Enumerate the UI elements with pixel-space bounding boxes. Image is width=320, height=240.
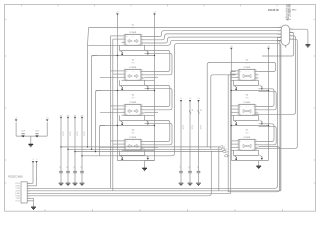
ground below bulk caps — [28, 144, 33, 146]
long verticals from U1 inputs to bottom buses — [111, 36, 122, 191]
decoupling capacitor C8 — [188, 98, 193, 186]
horizontal power distribution buses — [61, 147, 223, 152]
capacitor C2 — [35, 131, 39, 138]
svg-text:+5V: +5V — [74, 115, 77, 117]
svg-text:7:RTS: 7:RTS — [16, 198, 20, 200]
left staircase bus of middle column — [88, 45, 122, 156]
svg-text:/Y7/: /Y7/ — [131, 62, 135, 64]
svg-text:Vc2: Vc2 — [138, 70, 140, 72]
svg-text:Vc2: Vc2 — [138, 140, 140, 142]
pull-up network below U5 — [231, 80, 268, 90]
svg-text:GND: GND — [252, 114, 255, 116]
svg-text:Vc2: Vc2 — [252, 140, 254, 142]
left connector pig-tails — [27, 163, 36, 207]
svg-text:+5V: +5V — [230, 46, 233, 48]
power net flags at bus ends — [220, 146, 231, 158]
svg-text:/Y7/: /Y7/ — [245, 97, 249, 99]
transceiver U6 — [236, 95, 259, 117]
svg-text:LTV8441: LTV8441 — [244, 102, 251, 104]
svg-text:RS232C-9(M): RS232C-9(M) — [8, 176, 22, 178]
decoupling capacitor C4 — [66, 115, 71, 186]
svg-text:+5V: +5V — [60, 115, 63, 117]
svg-text:+5V: +5V — [116, 12, 119, 14]
top bus wire 3 to DSUB pin3 — [145, 34, 282, 40]
svg-text:+5: +5 — [32, 159, 34, 161]
transceiver U5 — [236, 60, 259, 82]
opto-isolator U3 — [122, 95, 145, 117]
VCC rail right of middle column — [153, 12, 156, 161]
top bus wire 1 to DSUB pin1 — [88, 28, 282, 46]
svg-text:C6: C6 — [80, 166, 82, 168]
VCC rail left of middle column — [116, 12, 119, 161]
pull-up network below U2 — [96, 80, 155, 90]
svg-text:/Y7/: /Y7/ — [245, 132, 249, 134]
pull-up network below U6 — [231, 115, 268, 125]
connector P1 RS232C — [8, 176, 30, 203]
svg-text:C7: C7 — [179, 166, 181, 168]
pull-up network below U4 — [117, 150, 154, 160]
svg-text:C4: C4 — [66, 166, 68, 168]
wires DSUB pins down to bottom buses — [278, 38, 282, 191]
svg-text:SHELL: SHELL — [286, 19, 291, 21]
pull-up network below U1 — [92, 45, 155, 55]
drop from bus to bottom bus — [218, 147, 220, 191]
svg-text:GND: GND — [252, 79, 255, 81]
svg-text:0.1uF: 0.1uF — [69, 132, 71, 136]
svg-text:LTV8441: LTV8441 — [244, 137, 251, 139]
big loop wire — [82, 44, 281, 191]
svg-text:Vc2: Vc2 — [252, 105, 254, 107]
stub wires into right column left pins — [231, 71, 236, 150]
inter-row loops right of middle column — [145, 50, 173, 144]
ground below right column — [256, 160, 261, 168]
svg-text:+5V: +5V — [189, 98, 192, 100]
svg-text:8:CTS: 8:CTS — [16, 200, 20, 202]
risers left of right column — [207, 62, 276, 193]
svg-text:Vc2: Vc2 — [138, 105, 140, 107]
decoupling capacitor C6 — [80, 115, 85, 186]
top bus wire 2 to DSUB pin2 — [145, 31, 282, 37]
VCC arrow left cap group B — [46, 118, 49, 122]
svg-text:LTV8441: LTV8441 — [244, 67, 251, 69]
svg-text:Vc2: Vc2 — [138, 35, 140, 37]
svg-text:/Y7/: /Y7/ — [131, 97, 135, 99]
ground below P1 — [31, 207, 36, 209]
svg-text:+5V: +5V — [267, 46, 270, 48]
wire DSUB pin2 to ground — [290, 29, 308, 45]
decoupling capacitor C9 — [196, 98, 201, 186]
extra stub wires at U4 — [100, 141, 158, 150]
pull-up network below U7 — [231, 150, 268, 160]
svg-text:DSUB-9F: DSUB-9F — [268, 8, 280, 12]
decoupling capacitor C7 — [179, 98, 184, 186]
decoupling capacitor C5 — [73, 115, 78, 186]
svg-text:0.1uF: 0.1uF — [76, 132, 78, 136]
VCC rail right of right column — [267, 46, 270, 160]
svg-text:0.1uF: 0.1uF — [182, 125, 184, 129]
svg-text:C9: C9 — [196, 166, 198, 168]
opto-isolator U4 — [122, 130, 145, 152]
decoupling capacitor C3 — [59, 115, 64, 186]
capacitor C1 — [21, 131, 25, 138]
svg-text:10uF: 10uF — [35, 131, 39, 133]
connector J1 DSUB-9F — [268, 5, 297, 49]
transceiver U7 — [236, 130, 259, 152]
top bus wire 5 to DSUB pin5 — [145, 40, 282, 45]
wires of bulk capacitor group — [16, 122, 47, 144]
svg-text:0.1uF: 0.1uF — [199, 125, 201, 129]
svg-text:LTV8441: LTV8441 — [130, 32, 137, 34]
VCC arrow above P1 pin1 — [32, 159, 35, 163]
svg-text:+5V: +5V — [81, 115, 84, 117]
svg-text:10uF: 10uF — [21, 131, 25, 133]
bottom bus wires — [27, 38, 281, 196]
svg-text:GND: GND — [252, 149, 255, 151]
svg-text:Vc2: Vc2 — [252, 70, 254, 72]
pull-up network below U3 — [100, 115, 155, 125]
svg-text:+5V: +5V — [197, 98, 200, 100]
svg-text:LTV8441: LTV8441 — [130, 137, 137, 139]
svg-text:+5V: +5V — [15, 118, 18, 120]
extra stub wires at U2 — [100, 71, 158, 80]
wires DSUB right pins down right side — [255, 33, 297, 149]
opto-isolator U1 — [122, 25, 145, 47]
svg-text:GND: GND — [138, 114, 141, 116]
svg-text:LTV8441: LTV8441 — [130, 102, 137, 104]
ground below middle column — [142, 161, 154, 171]
svg-text:0.1uF: 0.1uF — [83, 132, 85, 136]
opto-isolator U2 — [122, 60, 145, 82]
svg-text:C3: C3 — [59, 166, 61, 168]
svg-text:GND: GND — [138, 79, 141, 81]
VCC arrow left cap group A — [15, 118, 18, 122]
loops right of right column — [259, 89, 277, 145]
ground at DSUB — [306, 45, 311, 47]
svg-text:FB: FB — [190, 109, 192, 111]
svg-text:LTV8441: LTV8441 — [130, 67, 137, 69]
svg-text:C8: C8 — [188, 166, 190, 168]
svg-text:+5V: +5V — [153, 12, 156, 14]
top bus wire 4 to DSUB pin4 — [145, 37, 282, 43]
svg-text:+5V: +5V — [180, 98, 183, 100]
svg-text:+5V: +5V — [67, 115, 70, 117]
extra stub wires at U3 — [100, 106, 158, 115]
svg-text:0.1uF: 0.1uF — [62, 132, 64, 136]
VCC rail left of right column — [230, 46, 233, 160]
VCC arrow above P1 pin2 — [35, 159, 38, 163]
svg-text:/Y7/: /Y7/ — [131, 132, 135, 134]
svg-text:C5: C5 — [73, 166, 75, 168]
svg-text:0.1uF: 0.1uF — [191, 125, 193, 129]
svg-text:GND: GND — [138, 44, 141, 46]
svg-text:+5: +5 — [36, 159, 38, 161]
svg-text:FB: FB — [199, 109, 201, 111]
svg-text:+5V: +5V — [46, 118, 49, 120]
